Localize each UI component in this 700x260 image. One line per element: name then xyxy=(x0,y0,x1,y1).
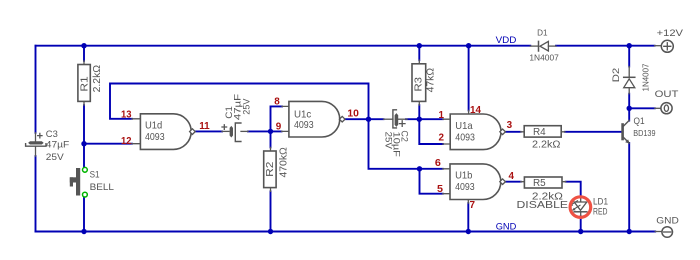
pin numbers red xyxy=(121,96,514,211)
capacitor C1 xyxy=(222,94,252,142)
wire pin7 xyxy=(467,203,469,231)
wire GND rail bottom xyxy=(36,231,656,233)
svg-text:BELL: BELL xyxy=(90,182,115,193)
svg-text:R2: R2 xyxy=(264,161,276,176)
resistor R2 lead stubs xyxy=(270,147,272,191)
U1b pin 6 and pin 5 stubs xyxy=(443,169,450,194)
junction GND rail / emitter xyxy=(627,229,632,234)
resistor R4 lead stubs xyxy=(521,131,565,133)
junction D2 / OUT / collector node xyxy=(627,106,632,111)
svg-text:GND: GND xyxy=(496,222,517,233)
svg-text:GND: GND xyxy=(656,215,679,226)
svg-text:2.2kΩ: 2.2kΩ xyxy=(92,64,103,92)
wire pin12 from R1 column xyxy=(84,143,132,145)
wire out10 to C2 xyxy=(345,118,384,120)
junction R1 bottom / pin 12 / S1 xyxy=(81,141,86,146)
capacitor C2 xyxy=(383,110,410,157)
wire out10 down to pins 6 and 5 xyxy=(369,119,443,169)
svg-text:R1: R1 xyxy=(78,76,90,91)
junction C2 / R3 / pin 1 node xyxy=(417,117,422,122)
svg-text:47kΩ: 47kΩ xyxy=(425,67,436,92)
wire pin8 hook xyxy=(271,106,283,131)
svg-text:VDD: VDD xyxy=(496,35,517,46)
terminal +12V xyxy=(655,28,684,53)
wire pin14 xyxy=(468,46,470,111)
NAND gate U1a xyxy=(450,114,505,150)
svg-text:1: 1 xyxy=(439,110,445,121)
svg-text:14: 14 xyxy=(470,105,481,116)
junction output 10 node xyxy=(366,117,371,122)
wire R1/S1 column xyxy=(83,46,85,232)
svg-text:C3: C3 xyxy=(46,129,58,140)
U1c pin 8 and pin 9 stubs xyxy=(282,106,289,131)
resistor R1 xyxy=(78,64,103,101)
svg-text:25V: 25V xyxy=(241,98,252,115)
junction C1 / R2 / pin 9 node xyxy=(268,129,273,134)
svg-text:10: 10 xyxy=(347,109,359,120)
junction VDD rail / R1 top xyxy=(81,43,86,48)
svg-text:BD139: BD139 xyxy=(633,128,656,138)
junction GND rail / LED cathode xyxy=(578,229,583,234)
svg-text:4093: 4093 xyxy=(455,181,475,193)
terminal GND xyxy=(655,215,679,237)
terminal OUT xyxy=(655,89,679,114)
svg-text:12: 12 xyxy=(121,136,132,147)
NAND gate U1c xyxy=(289,101,345,137)
switch S1 BELL xyxy=(70,167,115,197)
svg-text:R4: R4 xyxy=(533,127,546,138)
svg-text:25V: 25V xyxy=(383,132,394,150)
svg-text:4093: 4093 xyxy=(294,119,314,131)
wire VDD rail top xyxy=(36,45,655,47)
svg-text:7: 7 xyxy=(470,200,476,211)
red annotation circle xyxy=(570,197,591,218)
NAND gate U1d xyxy=(140,114,195,150)
svg-text:3: 3 xyxy=(507,120,513,131)
wire R5 to LED xyxy=(566,182,581,198)
svg-text:1N4007: 1N4007 xyxy=(529,53,559,63)
wire emitter to GND xyxy=(628,143,630,232)
svg-text:13: 13 xyxy=(121,110,132,121)
junction GND rail / S1 bottom xyxy=(81,229,86,234)
op-amp U1a pin 14 stub and U1b pin 7 stub xyxy=(467,110,469,203)
capacitor C3 xyxy=(26,129,70,163)
wire R2 column xyxy=(270,131,272,231)
svg-text:11: 11 xyxy=(199,121,210,132)
diode D1 xyxy=(529,27,559,62)
svg-text:U1d: U1d xyxy=(145,120,162,132)
wire left rail vertical xyxy=(35,46,37,232)
wire C2 to pin1 xyxy=(406,118,443,120)
wire out11 to C1 xyxy=(195,130,222,132)
transistor Q1 xyxy=(623,116,656,144)
svg-text:R3: R3 xyxy=(413,77,425,92)
svg-text:OUT: OUT xyxy=(655,89,679,100)
svg-text:8: 8 xyxy=(274,96,280,107)
svg-text:D1: D1 xyxy=(537,27,548,37)
U1d pin 13 and pin 12 stubs xyxy=(132,119,140,144)
resistor R3 xyxy=(412,64,436,102)
wire R4 to Q1 base xyxy=(565,131,623,133)
junction VDD rail / R3 top xyxy=(417,43,422,48)
svg-text:U1b: U1b xyxy=(455,170,472,182)
svg-text:LD1: LD1 xyxy=(593,196,608,206)
svg-text:Q1: Q1 xyxy=(634,116,645,127)
svg-text:+12V: +12V xyxy=(657,28,684,39)
svg-text:4093: 4093 xyxy=(145,131,165,143)
wire out3 to R4 xyxy=(505,131,520,133)
svg-text:4093: 4093 xyxy=(455,131,475,143)
svg-text:D2: D2 xyxy=(611,68,622,83)
svg-text:6: 6 xyxy=(435,158,441,169)
resistor R5 xyxy=(524,177,563,203)
wire feedback out10 to pin13 xyxy=(110,84,369,120)
resistor R5 lead stubs xyxy=(521,181,566,183)
wire pin2 hook xyxy=(419,119,443,144)
svg-text:2.2kΩ: 2.2kΩ xyxy=(532,139,561,150)
wire D2 column top xyxy=(628,46,630,67)
junction GND rail / R2 bottom xyxy=(268,229,273,234)
resistor R2 xyxy=(264,147,290,188)
wire OUT node to terminal xyxy=(629,107,655,109)
svg-text:9: 9 xyxy=(276,122,282,133)
wire LED to GND xyxy=(580,216,582,231)
LED LD1 xyxy=(569,196,608,216)
wire D2 bottom to OUT node xyxy=(628,94,630,121)
svg-text:S1: S1 xyxy=(90,170,100,181)
junction pin 6 / pin 5 node xyxy=(417,166,422,171)
wire out4 to R5 xyxy=(505,181,521,183)
NAND gate U1b xyxy=(450,164,505,200)
resistor R1 lead stubs xyxy=(83,61,85,105)
svg-text:4: 4 xyxy=(509,171,515,182)
svg-text:5: 5 xyxy=(437,184,443,195)
resistor R4 xyxy=(524,126,561,151)
svg-text:2: 2 xyxy=(439,133,445,144)
junction VDD rail / pin 14 xyxy=(466,43,471,48)
resistor R3 lead stubs xyxy=(418,60,420,105)
svg-text:U1a: U1a xyxy=(455,120,472,132)
wire R3 column xyxy=(418,46,420,120)
junction GND rail / pin 7 xyxy=(466,229,471,234)
svg-text:1N4007: 1N4007 xyxy=(640,63,650,91)
junction VDD rail / D2 branch xyxy=(627,43,632,48)
svg-text:R5: R5 xyxy=(533,178,546,189)
svg-text:25V: 25V xyxy=(46,152,65,163)
svg-text:470kΩ: 470kΩ xyxy=(279,147,290,178)
diode D2 xyxy=(611,63,650,93)
svg-text:47µF: 47µF xyxy=(46,140,70,151)
svg-text:DISABLE: DISABLE xyxy=(517,200,569,211)
wire C1 to pin9 node xyxy=(248,130,282,132)
svg-text:RED: RED xyxy=(593,207,608,217)
U1a pin 1 and pin 2 stubs xyxy=(443,119,450,144)
